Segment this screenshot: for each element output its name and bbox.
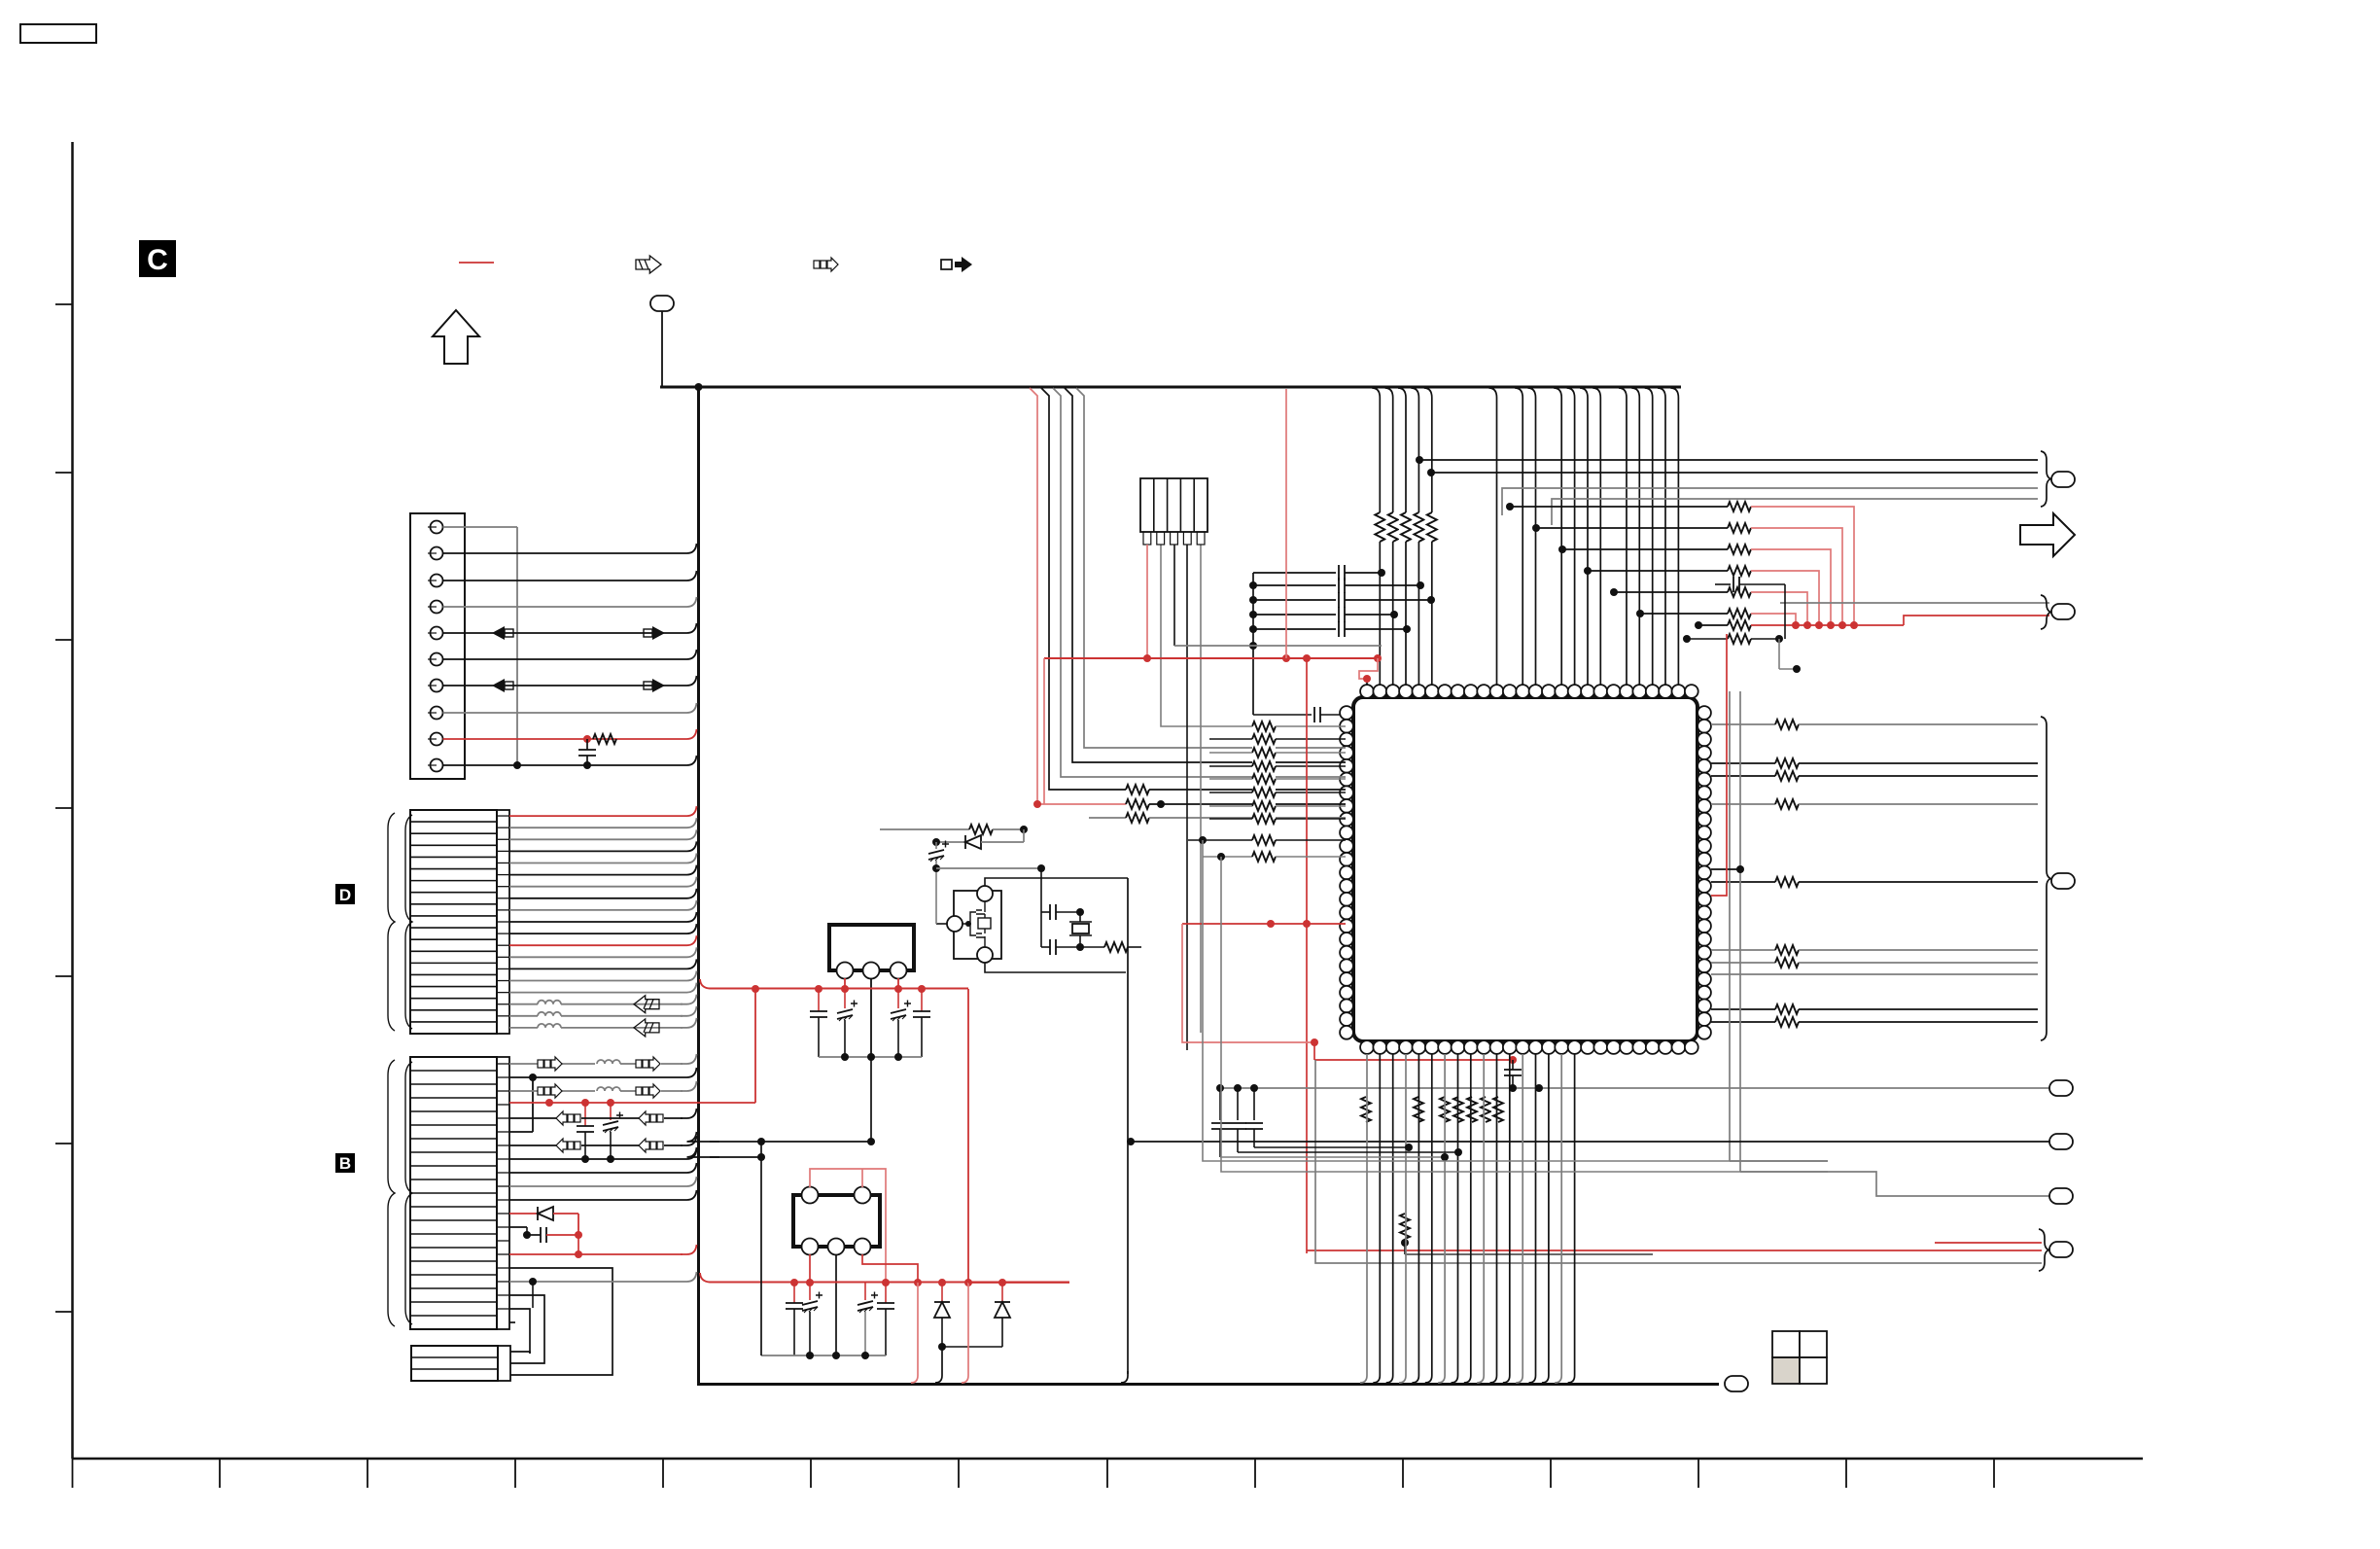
top harness bus <box>660 386 1681 389</box>
bb arrow row3 b <box>636 1084 660 1098</box>
junctions row8 <box>581 1155 589 1163</box>
wire IC1 pin3 down <box>897 978 899 989</box>
oscillator X1 innards <box>962 901 991 947</box>
U1 right pin wires with series resistors <box>1711 723 1775 725</box>
bb arrow row1 b <box>636 1057 660 1071</box>
wire CN101 pin2 <box>443 544 697 553</box>
connector CN-B row dividers <box>410 1070 497 1072</box>
IC U1 pin circles <box>1360 685 1374 698</box>
cap row4-row8 a <box>584 1103 586 1126</box>
red feet <box>911 1283 918 1383</box>
rail red IC2 junctions <box>790 1279 798 1286</box>
connector CN-B body <box>410 1057 497 1329</box>
bundle drop L4 <box>1065 388 1346 762</box>
link row13 down <box>526 1227 528 1235</box>
resistor bank RB1 with red drops <box>1510 506 1728 508</box>
wire CN101 pin8 <box>443 703 697 713</box>
zone label B <box>335 1153 355 1173</box>
red riser x1323 <box>1285 389 1287 658</box>
capacitor C11 <box>818 989 820 1011</box>
wire CN101 pin10 <box>443 756 697 765</box>
wire x896 to IC1 center <box>870 1057 872 1142</box>
cap C52 <box>1237 1088 1239 1120</box>
ground rail IC1 <box>819 1056 922 1058</box>
brace right group A <box>2041 451 2050 507</box>
terminal oval F3 <box>2049 1188 2073 1204</box>
terminal oval top <box>650 296 674 311</box>
inductor row1 <box>597 1060 620 1064</box>
capacitor C22 <box>1041 911 1050 913</box>
wire CN-B row3 <box>509 1090 538 1092</box>
wire y1190 <box>710 1156 761 1158</box>
junction row2 <box>529 1074 537 1081</box>
U1 bottom pin wires to bottom bus <box>1360 1054 1367 1383</box>
wire CN-T pin1 red <box>1146 545 1148 658</box>
wire capsrow spine <box>1252 573 1254 715</box>
rail red junctions <box>752 985 759 993</box>
connector CN-D body <box>410 810 497 1034</box>
rail junctions IC2 <box>806 1352 814 1359</box>
resistor RL3 <box>1089 817 1126 819</box>
wire IC2 pin4 red <box>861 1169 863 1187</box>
legend red wire sample <box>459 262 494 264</box>
junction X1 <box>965 921 971 927</box>
junction red corner <box>575 1231 582 1239</box>
svg-text:C: C <box>147 244 168 276</box>
red loop IC2 <box>810 1169 886 1283</box>
cap row13 <box>527 1234 541 1236</box>
zone label C <box>139 240 176 277</box>
regulator IC1 pins <box>837 963 854 979</box>
wire CN-B row20 <box>509 1321 515 1323</box>
brace inner CN-D <box>405 815 412 1029</box>
red riser x1405 <box>1374 654 1382 662</box>
wire X1 top to net <box>985 878 1128 886</box>
horizontal nets below U1 2 <box>1238 1151 1458 1153</box>
red wire into left pin <box>1182 923 1346 925</box>
wire CN-B row1 <box>509 1063 538 1065</box>
gray long wire to right edge <box>1315 1060 2042 1263</box>
wires into RSL <box>1161 545 1252 726</box>
junction pin9 red <box>583 735 591 743</box>
ground rail IC2 <box>761 1355 886 1356</box>
wire CN-B row8 <box>509 1149 697 1159</box>
bb arrow left row5 a <box>556 1111 580 1125</box>
black riser x1160 <box>1127 878 1129 1374</box>
junction row13 <box>523 1231 531 1239</box>
svg-text:D: D <box>339 886 351 904</box>
red drop x1352 <box>1313 1042 1315 1060</box>
IC U1 body <box>1353 697 1697 1041</box>
bundle drop L2 <box>1041 388 1126 790</box>
wire CN-B row15 <box>509 1253 682 1255</box>
connector CN-E body <box>411 1346 498 1381</box>
resistor R on pin9 <box>593 734 616 744</box>
wire CN-T pin4 long <box>1186 545 1188 1050</box>
red bus junctions <box>1282 654 1290 662</box>
horizontal nets below U1 4 <box>1203 840 1828 1161</box>
capacitor C14 <box>921 989 923 1011</box>
ecap C13 <box>897 989 899 1008</box>
brace right group E <box>2039 1229 2048 1271</box>
wire CN-B row19 <box>509 1309 530 1354</box>
brace right group C <box>2041 717 2050 1040</box>
power rail red IC2 <box>700 1273 1069 1283</box>
regulator IC2 body <box>793 1195 880 1247</box>
diode D62 <box>1001 1283 1003 1302</box>
connector CN101 pin circles <box>431 521 443 534</box>
wire CN-B row2 <box>509 1068 697 1077</box>
wire net B1 <box>1780 602 2049 604</box>
red wire pair right <box>1935 1242 2042 1244</box>
wire pin1 link down <box>516 527 518 765</box>
wire D61-D62 <box>942 1346 1002 1348</box>
wire red rail to diode2 <box>968 1282 1069 1284</box>
terminal oval E <box>2049 1242 2073 1257</box>
arrow out pin7 <box>644 679 665 692</box>
ecap C63 <box>864 1283 866 1300</box>
bundle drop L5 <box>1076 388 1346 748</box>
brace inner CN-B <box>405 1062 412 1324</box>
arrow in pin5 <box>492 626 513 640</box>
wire IC1 pin2 down <box>870 978 872 1057</box>
bottom ruler tick marks <box>72 1459 74 1488</box>
bb arrow left row7 a <box>556 1139 580 1152</box>
wire CN101 pin5 <box>443 623 697 633</box>
legend bb arrow symbol <box>814 258 838 271</box>
black riser x783 <box>760 1142 762 1355</box>
red loop osc <box>1182 924 1314 1042</box>
resistor RL1 <box>1126 785 1149 794</box>
junction row15 <box>575 1250 582 1258</box>
wire net A4 <box>1552 499 2038 525</box>
resistor stack RSL <box>1252 721 1276 732</box>
resistor R21 <box>880 828 969 830</box>
wire CN-B row10 <box>509 1177 697 1186</box>
caps row into U1 <box>1253 572 1336 574</box>
capacitor C61 <box>793 1283 795 1303</box>
link row17 down <box>532 1282 534 1308</box>
red long wire to right edge <box>1307 1250 2042 1251</box>
bb arrow left row5 b <box>639 1111 663 1125</box>
connector CN-B pin column <box>497 1057 509 1329</box>
wire CN101 pin6 <box>443 650 697 659</box>
capacitor C31 <box>1715 583 1731 585</box>
resistor R30 feeding red rail <box>1698 624 1728 626</box>
riser red to regulator rail <box>754 989 756 1103</box>
wire stub B3 <box>1784 584 1786 639</box>
cap under QFP <box>1512 1060 1514 1070</box>
junction crystal top <box>1037 864 1045 872</box>
ecap C62 <box>809 1283 811 1300</box>
junctions row4 red <box>545 1099 553 1107</box>
terminal oval bottom right <box>1725 1376 1748 1391</box>
red feed row8 <box>1037 658 1126 804</box>
resistor RV2 <box>1400 1214 1410 1239</box>
wire CN-B row7 <box>509 1144 556 1146</box>
wire CN-B row18 <box>509 1295 544 1340</box>
junctions rail below U1 <box>1216 1084 1224 1092</box>
wire CN101 pin1 <box>443 526 518 528</box>
wire right single 2 <box>1131 1141 2049 1143</box>
bb arrow left row7 b <box>639 1139 663 1152</box>
wire IC2 pin2 down <box>835 1254 837 1355</box>
red rail RB1 <box>1751 624 1904 626</box>
wire CN-B row9 <box>509 1163 697 1173</box>
wire CN101 pin4 <box>443 597 697 607</box>
arrow big right <box>2020 513 2075 556</box>
capacitor C pin9-pin10 <box>586 739 588 750</box>
wire CN-B row4 red <box>509 1102 755 1104</box>
cap lone C41 <box>1253 714 1312 716</box>
legend hatched arrow symbol <box>636 256 661 273</box>
junction C21 <box>932 864 940 872</box>
wire IC2 pin1 down <box>809 1254 811 1283</box>
horizontal nets below U1 5 <box>1221 857 1828 1172</box>
arrow out pin5 <box>644 626 665 640</box>
wire CN-B row12 <box>509 1213 538 1215</box>
junction on top bus <box>695 383 703 391</box>
bottom harness bus <box>697 1383 1719 1386</box>
resistor RL2 <box>1126 799 1149 809</box>
red dot D61 <box>938 1279 946 1286</box>
wire CN101 pin3 <box>443 571 697 581</box>
brace outer CN-D <box>388 813 395 1031</box>
legend box arrow symbol <box>941 257 972 272</box>
wire net A3 <box>1502 488 2038 515</box>
red bus mid <box>1044 657 1378 659</box>
resistor R22 <box>1080 946 1104 948</box>
bb arrow row1 a <box>538 1057 562 1071</box>
connector CN-T body <box>1140 478 1207 532</box>
connector CN-E row dividers <box>411 1356 498 1358</box>
junction D21 left <box>932 838 940 846</box>
pullup resistor row on drops <box>1373 512 1386 542</box>
wire IC1 pin1 down <box>844 978 846 989</box>
wire CN-B row13 <box>509 1226 527 1228</box>
regulator IC2 pins <box>802 1187 819 1204</box>
diode D61 <box>941 1283 943 1302</box>
wire red feed pin1 <box>1366 679 1368 685</box>
link row2-row6 <box>532 1077 534 1132</box>
cap C53 <box>1253 1088 1255 1120</box>
wire right single 1 <box>1220 1087 2049 1089</box>
diode D21 <box>936 841 965 843</box>
terminal oval B <box>2051 604 2075 619</box>
capacitor C64 <box>885 1283 887 1303</box>
crystal X2 <box>1072 924 1089 933</box>
ecap C12 <box>844 989 846 1008</box>
link red corner to row15 <box>577 1235 579 1254</box>
zone label D <box>335 884 355 904</box>
bundle drop L1 <box>1030 388 1037 658</box>
inductor row3 <box>597 1087 620 1091</box>
wire oval to top bus <box>661 311 663 387</box>
wire CN-T pin5 long <box>1200 545 1202 1033</box>
arrow hatched row19 <box>634 1019 659 1037</box>
wire X1 left <box>936 923 947 925</box>
brace outer CN-B <box>388 1060 395 1326</box>
wire CN-B row17 <box>509 1272 697 1282</box>
red wire under QFP <box>1314 1059 1513 1061</box>
wire diode to corner <box>553 1213 578 1215</box>
red elbow right <box>1711 634 1727 896</box>
alignment checker box <box>1772 1331 1827 1384</box>
junction C23 <box>1076 943 1084 951</box>
riser red rail to lower rail <box>967 989 969 1283</box>
horizontal nets below U1 3 <box>1220 1156 1445 1158</box>
horizontal nets below U1 1 <box>1254 1146 1409 1148</box>
connector CN-D pin column <box>497 810 509 1034</box>
power rail red IC1 <box>700 979 968 989</box>
gray riser right1 <box>1729 691 1731 1161</box>
junction C22 <box>1076 908 1084 916</box>
wire crystal net top <box>1040 868 1042 912</box>
harness drop wires to U1 top pins <box>1372 388 1380 685</box>
arrow in pin7 <box>492 679 513 692</box>
sheet corner box top-left <box>20 24 96 43</box>
wire CN-B row5 <box>509 1117 556 1119</box>
junction row17 <box>529 1278 537 1285</box>
oscillator X1 pins <box>977 886 993 901</box>
wires CN-D rows to harness <box>509 806 697 816</box>
wire CN-B row6 <box>509 1131 533 1133</box>
junction R21 <box>1020 826 1028 833</box>
left ruler tick marks <box>55 303 73 305</box>
left ruler axis <box>71 142 74 1459</box>
resistor pair R32 <box>1728 634 1751 644</box>
big up arrow symbol <box>433 310 479 364</box>
diode row12 <box>538 1207 553 1220</box>
resistor row below U1 <box>1359 1097 1373 1122</box>
rail junctions IC1 <box>841 1053 849 1061</box>
arrow hatched row17 <box>634 996 659 1013</box>
connector CN101 body <box>410 513 465 779</box>
bb arrow row3 a <box>538 1084 562 1098</box>
wire CN-B row16 <box>509 1268 612 1315</box>
wire CN101 pin9 <box>443 729 697 739</box>
svg-text:B: B <box>339 1154 351 1173</box>
red riser x1344 long <box>1306 658 1308 1253</box>
ecap C21 <box>935 842 937 849</box>
wire IC2 pin3 red <box>862 1254 918 1283</box>
resistor row RM1 <box>1188 839 1252 841</box>
connector CN-T cells <box>1153 478 1155 532</box>
connector CN-D row dividers <box>410 821 497 823</box>
terminal oval C <box>2051 873 2075 889</box>
inductor row17 <box>538 1001 561 1004</box>
inductor row18 <box>538 1012 561 1016</box>
bottom ruler axis <box>73 1458 2144 1461</box>
wire right single 3 <box>1740 1172 2049 1196</box>
terminal oval F2 <box>2049 1134 2073 1149</box>
oscillator X1 outline <box>954 891 1001 959</box>
junction pin10 wire <box>513 761 521 769</box>
cap C51 <box>1219 1088 1221 1120</box>
wire X1 bottom <box>985 963 1126 972</box>
terminal oval F1 <box>2049 1080 2073 1096</box>
ecap row4-row8 b <box>610 1103 612 1120</box>
feet diodes <box>935 1347 942 1383</box>
terminal oval A <box>2051 472 2075 487</box>
red bus mid left riser <box>1043 658 1045 804</box>
vertical harness bus <box>697 387 700 1384</box>
junction D61 bottom <box>938 1343 946 1351</box>
wire net A1 <box>1419 459 2038 461</box>
wires CN-E rows <box>510 1352 530 1354</box>
gray riser right2 <box>1739 691 1741 1172</box>
inductor row19 <box>538 1024 561 1028</box>
wire CN101 pin7 <box>443 676 697 686</box>
bundle drop L3 <box>1053 388 1346 777</box>
wire red to oval group B <box>1904 616 2049 625</box>
regulator IC1 body <box>829 925 914 970</box>
wire gray to crystal area <box>936 867 1041 869</box>
brace right group B <box>2041 595 2050 629</box>
rail below U1 <box>1219 1087 1221 1089</box>
resistor row RM2 <box>1203 856 1252 858</box>
capacitor C23 <box>1040 912 1042 947</box>
wire CN-B row11 <box>509 1190 697 1200</box>
connector CN-E pin column <box>498 1346 510 1381</box>
wire net A2 <box>1431 472 2038 474</box>
wire y1174 short <box>710 1141 871 1143</box>
wire RV2 <box>1404 1239 1406 1254</box>
gray wire y1194 <box>1730 1160 1828 1162</box>
